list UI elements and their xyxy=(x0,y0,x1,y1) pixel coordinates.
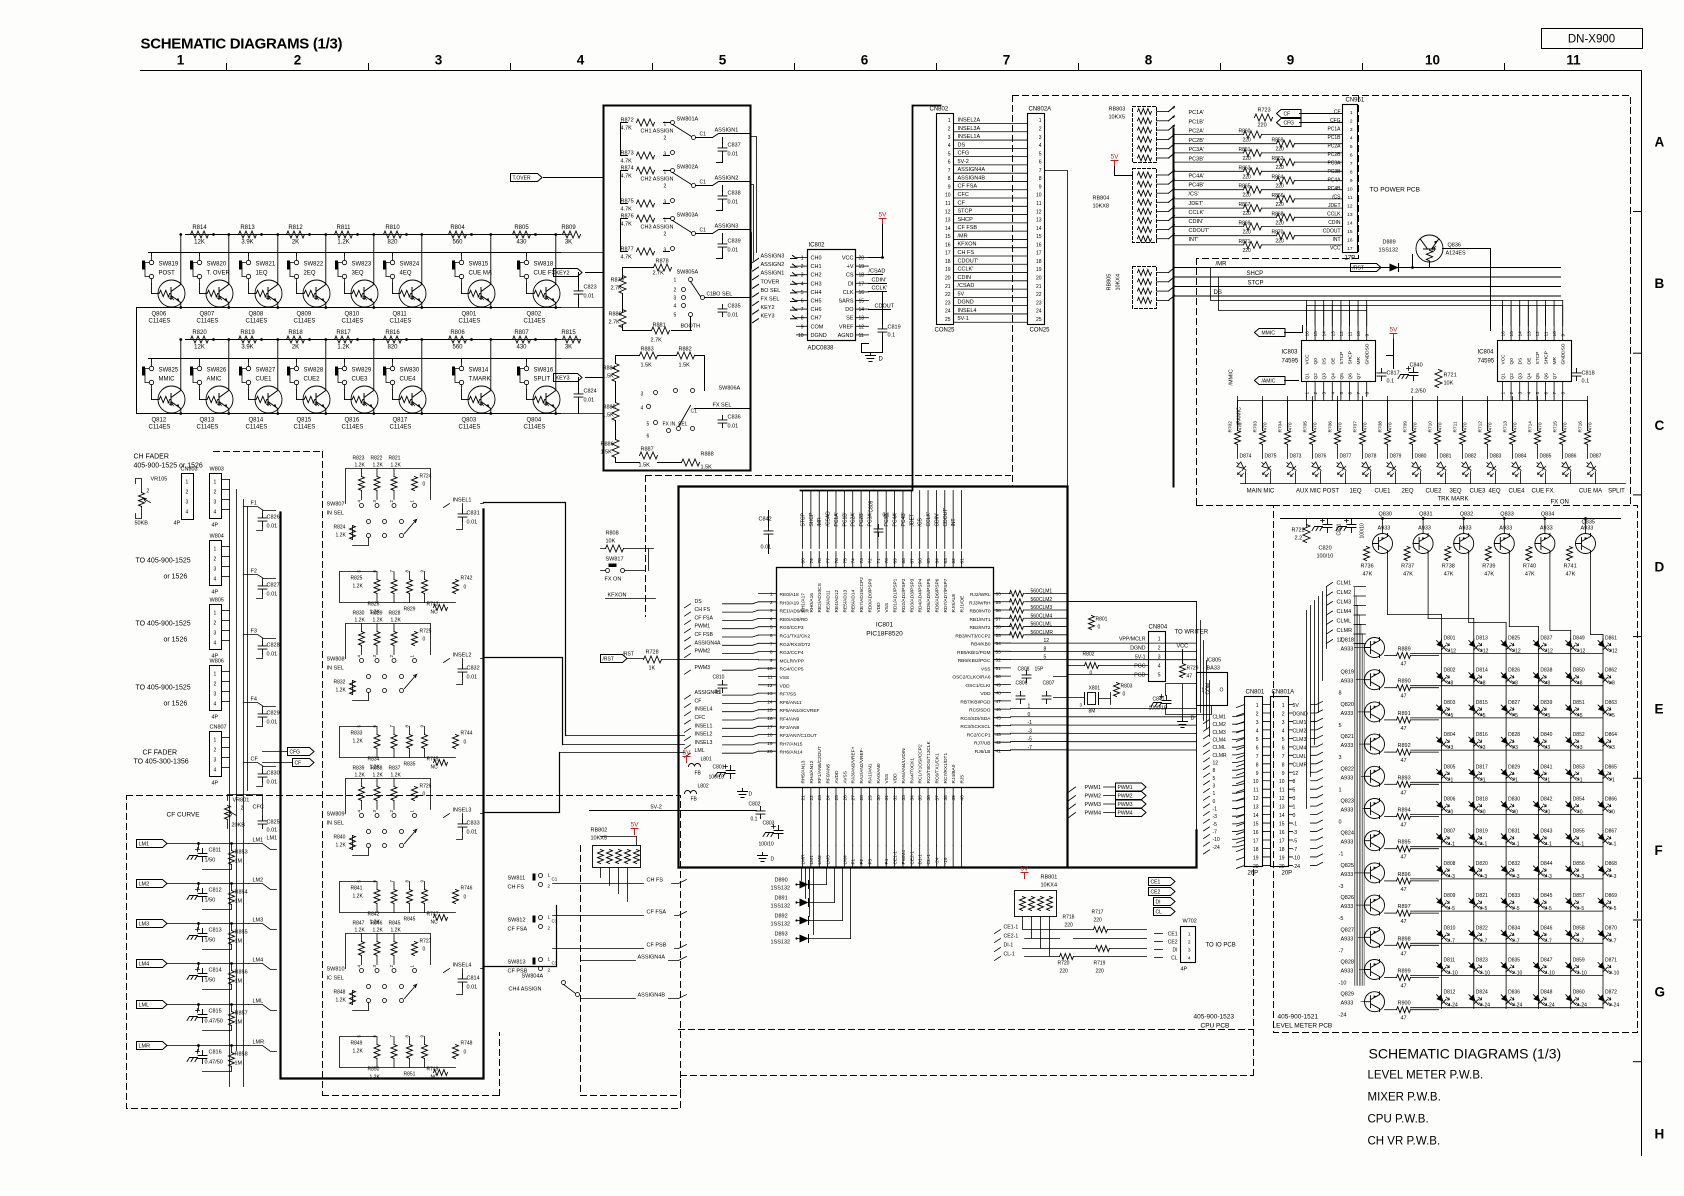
svg-text:D842: D842 xyxy=(1540,797,1552,803)
right border line xyxy=(1641,71,1643,1156)
svg-text:470: 470 xyxy=(1288,422,1294,430)
node CF flag xyxy=(1277,110,1302,118)
diode D871 xyxy=(1596,960,1615,974)
svg-text:76: 76 xyxy=(834,558,840,564)
svg-text:R835: R835 xyxy=(404,762,416,768)
svg-text:14: 14 xyxy=(945,226,951,232)
svg-text:R716: R716 xyxy=(1578,421,1584,433)
svg-text:D802: D802 xyxy=(1444,668,1456,674)
capacitor C836 xyxy=(718,416,727,428)
svg-text:C839: C839 xyxy=(728,239,741,245)
wire Q820 row xyxy=(1385,719,1397,721)
svg-text:LM1: LM1 xyxy=(809,855,815,865)
svg-text:SW812: SW812 xyxy=(508,918,526,924)
svg-text:A933: A933 xyxy=(1341,775,1354,781)
svg-text:1K: 1K xyxy=(649,666,656,672)
wire CLM rails tap to transistors xyxy=(1355,647,1365,649)
svg-text:Q7: Q7 xyxy=(1356,373,1362,380)
svg-text:R742: R742 xyxy=(461,576,473,582)
svg-text:42: 42 xyxy=(996,740,1002,746)
svg-text:2K: 2K xyxy=(292,240,299,246)
svg-text:A933: A933 xyxy=(1341,872,1354,878)
svg-text:F4: F4 xyxy=(884,859,890,865)
svg-text:D857: D857 xyxy=(1573,893,1585,899)
diode D883 xyxy=(1485,460,1498,476)
svg-text:D841: D841 xyxy=(1540,764,1552,770)
diode D805 xyxy=(1434,767,1453,781)
resistor R862 220 xyxy=(1277,159,1295,166)
resistor R809 xyxy=(563,231,581,238)
diode D842 xyxy=(1531,799,1550,813)
svg-text:RB1/INT1: RB1/INT1 xyxy=(969,617,990,623)
svg-text:20: 20 xyxy=(945,276,951,282)
svg-text:R889: R889 xyxy=(1398,647,1411,653)
svg-text:-5: -5 xyxy=(1213,822,1218,828)
svg-text:or 1526: or 1526 xyxy=(164,637,188,644)
svg-text:RH3/A19: RH3/A19 xyxy=(780,600,800,606)
svg-text:VREF: VREF xyxy=(839,324,854,330)
svg-text:PWM1: PWM1 xyxy=(1118,785,1133,791)
svg-text:R812: R812 xyxy=(288,225,303,231)
svg-text:12K: 12K xyxy=(194,240,205,246)
svg-text:13: 13 xyxy=(1330,331,1336,337)
svg-text:-1: -1 xyxy=(1293,822,1298,828)
svg-text:RB803: RB803 xyxy=(1109,107,1126,113)
svg-text:2: 2 xyxy=(1509,392,1515,395)
svg-text:4.7K: 4.7K xyxy=(621,222,633,228)
svg-text:KEY2: KEY2 xyxy=(556,271,570,277)
svg-text:59: 59 xyxy=(996,600,1002,606)
svg-text:560: 560 xyxy=(452,240,463,246)
wire shift register to LED driver verticals xyxy=(1237,397,1239,431)
pin 69 IC801 xyxy=(894,552,896,568)
svg-text:3: 3 xyxy=(948,135,951,141)
wire Q811 emitter xyxy=(421,303,423,307)
svg-text:8M: 8M xyxy=(1089,709,1096,715)
transistor Q829 A933 xyxy=(1365,992,1385,1012)
transistor Q810 C114ES xyxy=(351,280,378,307)
svg-text:D843: D843 xyxy=(1540,829,1552,835)
svg-text:5: 5 xyxy=(674,313,677,319)
wire Q814 collector xyxy=(277,340,279,390)
svg-text:10: 10 xyxy=(1036,193,1042,199)
svg-text:6: 6 xyxy=(647,434,650,440)
svg-text:R817: R817 xyxy=(336,330,351,336)
svg-text:PC2A': PC2A' xyxy=(1189,129,1204,135)
svg-text:470: 470 xyxy=(1438,422,1444,430)
svg-text:100/10: 100/10 xyxy=(1317,554,1334,560)
svg-text:8: 8 xyxy=(948,176,951,182)
wires SW806A block xyxy=(616,356,705,463)
svg-text:R886: R886 xyxy=(601,442,614,448)
svg-text:0: 0 xyxy=(464,895,467,901)
pin 5 IC803 xyxy=(1340,382,1342,397)
svg-text:36: 36 xyxy=(926,795,932,801)
svg-text:21: 21 xyxy=(801,795,807,801)
svg-text:RD0/AD0/PSP0: RD0/AD0/PSP0 xyxy=(867,578,873,612)
svg-text:PWM4: PWM4 xyxy=(1118,811,1133,817)
pin 18 IC801 xyxy=(759,734,777,736)
svg-text:1SS132: 1SS132 xyxy=(771,940,791,946)
svg-text:C114ES: C114ES xyxy=(246,319,268,325)
power 5V ADC xyxy=(879,212,888,225)
svg-text:6: 6 xyxy=(1348,392,1354,395)
svg-text:R721: R721 xyxy=(1444,373,1457,379)
svg-text:1.2K: 1.2K xyxy=(391,463,402,469)
svg-text:MAIN MIC: MAIN MIC xyxy=(1247,489,1275,495)
svg-text:SW822: SW822 xyxy=(304,262,324,268)
capacitor C839 xyxy=(718,240,727,252)
svg-text:13: 13 xyxy=(945,218,951,224)
svg-text:4.7K: 4.7K xyxy=(621,255,633,261)
svg-text:RD7/AD7/PSP7: RD7/AD7/PSP7 xyxy=(943,578,949,612)
svg-text:C835: C835 xyxy=(728,304,741,310)
svg-text:MR: MR xyxy=(1552,357,1558,365)
pin 3 IC801 xyxy=(759,609,777,611)
svg-text:INSEL2: INSEL2 xyxy=(695,732,713,738)
svg-text:Q810: Q810 xyxy=(345,312,360,318)
resistor R855 1M xyxy=(229,931,235,945)
svg-text:C816: C816 xyxy=(209,1050,222,1056)
resistor R899 47 xyxy=(1397,975,1411,981)
svg-text:CLM4: CLM4 xyxy=(1337,609,1352,615)
svg-text:220: 220 xyxy=(1065,923,1074,929)
svg-text:5: 5 xyxy=(1293,788,1296,794)
svg-text:C1: C1 xyxy=(700,228,707,234)
svg-text:CH3 ASSIGN: CH3 ASSIGN xyxy=(641,225,674,231)
capacitor C823 xyxy=(574,287,583,299)
pin 35 IC801 xyxy=(919,788,921,804)
svg-text:PC4B: PC4B xyxy=(1327,186,1341,192)
svg-text:R713: R713 xyxy=(1503,421,1509,433)
svg-text:R832: R832 xyxy=(334,680,346,686)
pin 24 IC801 xyxy=(827,788,829,804)
svg-text:D871: D871 xyxy=(1605,958,1617,964)
svg-text:0.01: 0.01 xyxy=(761,545,772,551)
svg-text:R884: R884 xyxy=(603,366,616,372)
svg-text:20: 20 xyxy=(1036,276,1042,282)
pin 21 IC801 xyxy=(802,788,804,804)
svg-text:CH2: CH2 xyxy=(811,273,822,279)
svg-text:GNDDSO: GNDDSO xyxy=(1561,343,1567,364)
transistor Q814 C114ES xyxy=(255,386,282,413)
svg-text:5: 5 xyxy=(1213,776,1216,782)
svg-text:2: 2 xyxy=(241,806,244,812)
svg-text:CUE2: CUE2 xyxy=(304,377,321,383)
svg-text:9: 9 xyxy=(1039,184,1042,190)
DN-X900 title box xyxy=(1542,29,1643,49)
diode D823 xyxy=(1467,960,1486,974)
svg-text:D822: D822 xyxy=(1476,925,1488,931)
wire Q806 collector xyxy=(180,235,182,284)
svg-text:R845: R845 xyxy=(389,921,401,927)
svg-text:D821: D821 xyxy=(1476,893,1488,899)
svg-text:R813: R813 xyxy=(240,225,255,231)
svg-text:1.2K: 1.2K xyxy=(336,688,347,694)
svg-text:DS: DS xyxy=(958,142,966,148)
svg-text:TO POWER PCB: TO POWER PCB xyxy=(1370,187,1420,194)
wire IC803 output bus xyxy=(1307,397,1359,401)
resistor R715 470 xyxy=(1560,431,1566,445)
pin 22 IC801 xyxy=(810,788,812,804)
svg-text:6: 6 xyxy=(1256,745,1259,751)
svg-text:1.2K: 1.2K xyxy=(353,894,364,900)
svg-text:R822: R822 xyxy=(371,456,383,462)
wire Q808 emitter xyxy=(277,303,279,307)
svg-text:SE: SE xyxy=(846,316,854,322)
svg-text:CUE4: CUE4 xyxy=(1508,489,1525,495)
svg-text:JDET: JDET xyxy=(909,514,915,527)
svg-text:CUE MA: CUE MA xyxy=(469,271,492,277)
svg-text:R706: R706 xyxy=(1328,421,1334,433)
svg-text:4: 4 xyxy=(1282,728,1285,734)
svg-text:D877: D877 xyxy=(1340,454,1352,460)
svg-text:Q808: Q808 xyxy=(249,312,264,318)
svg-text:A933: A933 xyxy=(1341,711,1354,717)
svg-text:ASSIGN4A: ASSIGN4A xyxy=(638,955,666,961)
svg-text:C114ES: C114ES xyxy=(294,425,316,431)
svg-text:RB2/INT2: RB2/INT2 xyxy=(969,625,990,631)
pin 13 IC803 xyxy=(1331,301,1333,341)
svg-text:CLMR: CLMR xyxy=(1293,762,1308,768)
pin 52 IC801 xyxy=(994,659,1011,661)
svg-text:2: 2 xyxy=(147,489,150,495)
svg-text:-24: -24 xyxy=(1293,864,1301,870)
svg-text:LM2: LM2 xyxy=(817,855,823,865)
svg-text:47: 47 xyxy=(1401,951,1407,957)
svg-text:11: 11 xyxy=(859,333,864,339)
svg-text:CLM4: CLM4 xyxy=(1213,738,1227,744)
svg-text:38: 38 xyxy=(943,795,949,801)
svg-text:470: 470 xyxy=(1238,422,1244,430)
pin 79 IC801 xyxy=(810,552,812,568)
resistor R819 xyxy=(239,336,257,343)
svg-text:SHCP: SHCP xyxy=(1544,351,1550,364)
wire left edge connecting rows xyxy=(136,308,138,414)
node CF flag xyxy=(293,759,315,767)
switch SW820 xyxy=(190,256,202,284)
svg-text:1: 1 xyxy=(186,480,189,486)
svg-text:100/10: 100/10 xyxy=(709,775,725,781)
resistor R880 xyxy=(619,310,626,328)
svg-text:D829: D829 xyxy=(1508,764,1520,770)
svg-text:KFXON: KFXON xyxy=(958,242,977,248)
diode D801 xyxy=(1434,638,1453,652)
svg-text:CON25: CON25 xyxy=(935,328,956,334)
svg-text:2: 2 xyxy=(770,600,773,606)
svg-text:1.2K: 1.2K xyxy=(391,928,402,934)
svg-text:47K: 47K xyxy=(1444,572,1454,578)
svg-text:1: 1 xyxy=(1188,932,1191,938)
svg-text:T.OVER: T.OVER xyxy=(513,176,531,182)
resistor zero R726 xyxy=(412,787,418,801)
svg-text:RF6/AN11: RF6/AN11 xyxy=(780,700,802,706)
svg-text:CH7: CH7 xyxy=(811,316,822,322)
resistor R805 xyxy=(513,231,531,238)
level meter dashed outline xyxy=(1274,506,1638,1033)
svg-text:LM3: LM3 xyxy=(826,855,832,865)
svg-text:11: 11 xyxy=(1036,201,1041,207)
diode D869 xyxy=(1596,896,1615,910)
wire CLM bundle vertical xyxy=(1307,587,1327,809)
wire Q829 row xyxy=(1385,1009,1397,1011)
svg-text:C814: C814 xyxy=(467,976,480,982)
pin 5 IC804 xyxy=(1536,382,1538,397)
wires SW810 block xyxy=(340,934,456,1068)
svg-text:8: 8 xyxy=(1256,762,1259,768)
svg-text:SARS: SARS xyxy=(839,299,854,305)
svg-text:80: 80 xyxy=(801,558,807,564)
svg-text:Q831: Q831 xyxy=(1419,512,1432,518)
switch SW821 xyxy=(239,256,251,284)
svg-text:5: 5 xyxy=(1612,713,1615,719)
svg-text:3: 3 xyxy=(1612,745,1615,751)
svg-text:RF2/AN7/C1OUT: RF2/AN7/C1OUT xyxy=(780,733,817,739)
svg-text:C820: C820 xyxy=(1319,546,1332,552)
svg-text:-7: -7 xyxy=(1612,938,1617,944)
svg-text:INSEL1A: INSEL1A xyxy=(958,134,981,140)
svg-text:15: 15 xyxy=(767,708,773,714)
capacitor C811 electrolytic xyxy=(187,848,207,862)
svg-text:R829: R829 xyxy=(371,611,383,617)
svg-text:C808: C808 xyxy=(1018,667,1030,673)
svg-text:405-900-1523: 405-900-1523 xyxy=(1194,1014,1235,1021)
svg-text:Q823: Q823 xyxy=(1341,799,1354,805)
svg-text:0.47/50: 0.47/50 xyxy=(205,1019,223,1025)
svg-text:R841: R841 xyxy=(351,886,363,892)
svg-text:VDD: VDD xyxy=(980,691,991,697)
svg-text:D847: D847 xyxy=(1540,958,1552,964)
svg-text:VCC: VCC xyxy=(1501,354,1507,365)
svg-text:0.01: 0.01 xyxy=(267,720,278,726)
svg-text:R846: R846 xyxy=(371,921,383,927)
pin 11 IC804 xyxy=(1545,301,1547,341)
svg-text:Q2: Q2 xyxy=(1509,373,1515,380)
svg-text:SW829: SW829 xyxy=(352,368,372,374)
svg-text:0.01: 0.01 xyxy=(728,200,739,206)
wire top bundle from CPU xyxy=(801,106,941,491)
pin 13 IC801 xyxy=(759,692,777,694)
svg-text:F4: F4 xyxy=(251,697,257,703)
svg-text:Q806: Q806 xyxy=(152,312,167,318)
svg-text:ASSIGN4B: ASSIGN4B xyxy=(958,175,986,181)
svg-text:8: 8 xyxy=(1039,176,1042,182)
diode D845 xyxy=(1531,896,1550,910)
svg-text:2: 2 xyxy=(948,126,951,132)
ground ADC xyxy=(866,353,876,362)
svg-text:0: 0 xyxy=(423,482,426,488)
svg-text:D838: D838 xyxy=(1540,668,1552,674)
svg-text:0.01: 0.01 xyxy=(267,524,278,530)
svg-text:PC3A': PC3A' xyxy=(1189,147,1204,153)
svg-text:R870: R870 xyxy=(1272,230,1284,236)
svg-text:CL-1: CL-1 xyxy=(1004,952,1015,958)
diode D854 xyxy=(1563,799,1582,813)
wire SW827 to bus xyxy=(248,359,250,362)
svg-text:-10: -10 xyxy=(1293,855,1301,861)
switch SW801A xyxy=(671,121,675,125)
svg-text:B: B xyxy=(1655,276,1665,291)
wire Q823 row xyxy=(1385,816,1397,818)
svg-text:D830: D830 xyxy=(1508,797,1520,803)
wire Q801 emitter xyxy=(490,303,492,307)
svg-text:1.2K: 1.2K xyxy=(391,773,402,779)
svg-text:Q829: Q829 xyxy=(1341,992,1354,998)
svg-text:1: 1 xyxy=(1501,392,1507,395)
wire Q803 emitter xyxy=(490,409,492,413)
svg-text:D812: D812 xyxy=(1444,990,1456,996)
svg-text:RF7/SS: RF7/SS xyxy=(780,692,797,698)
diode D864 xyxy=(1596,735,1615,749)
svg-text:D891: D891 xyxy=(775,896,788,902)
diode D843 xyxy=(1531,831,1550,845)
svg-text:1EQ: 1EQ xyxy=(256,271,268,277)
svg-text:1.2K: 1.2K xyxy=(337,240,349,246)
wire Q816 emitter xyxy=(373,409,375,413)
svg-text:19: 19 xyxy=(1253,855,1259,861)
svg-text:0.01: 0.01 xyxy=(728,313,739,319)
svg-text:MMIC: MMIC xyxy=(159,377,176,383)
wires SW809 block xyxy=(340,779,456,913)
svg-text:CL-1: CL-1 xyxy=(926,854,932,865)
svg-text:CDIN': CDIN' xyxy=(934,513,940,526)
svg-text:R818: R818 xyxy=(288,330,303,336)
svg-text:TRK MARK: TRK MARK xyxy=(1438,497,1469,503)
svg-text:15: 15 xyxy=(859,299,865,305)
diode D885 xyxy=(1535,460,1548,476)
svg-text:19: 19 xyxy=(1279,855,1285,861)
svg-text:11: 11 xyxy=(1348,331,1354,336)
svg-text:35: 35 xyxy=(918,795,924,801)
diode D840 xyxy=(1531,735,1550,749)
wire SW821 to bus xyxy=(248,253,250,256)
svg-text:R871: R871 xyxy=(1239,239,1251,245)
svg-text:1SS132: 1SS132 xyxy=(771,904,791,910)
svg-text:R819: R819 xyxy=(240,330,255,336)
resistor R868 220 xyxy=(1277,214,1295,221)
svg-text:INSEL4: INSEL4 xyxy=(453,963,472,969)
diode D807 xyxy=(1434,831,1453,845)
svg-text:C809: C809 xyxy=(869,500,875,512)
svg-text:RA4/T0CK1: RA4/T0CK1 xyxy=(909,758,915,784)
svg-text:R711: R711 xyxy=(1453,421,1459,432)
svg-text:Q812: Q812 xyxy=(152,418,167,424)
node LM4 flag xyxy=(137,960,168,968)
svg-text:CN802A: CN802A xyxy=(1029,107,1052,113)
svg-text:31: 31 xyxy=(884,795,890,801)
svg-text:4: 4 xyxy=(186,510,189,516)
svg-text:6: 6 xyxy=(801,299,804,305)
svg-text:75: 75 xyxy=(842,558,848,564)
pin 30 IC801 xyxy=(877,788,879,804)
svg-text:47K: 47K xyxy=(1484,572,1494,578)
capacitor C841 electrolytic xyxy=(1151,695,1171,709)
svg-text:MCLR/VPP: MCLR/VPP xyxy=(780,658,805,664)
svg-text:R725: R725 xyxy=(420,629,432,635)
connector CN961 xyxy=(1343,105,1358,253)
svg-text:A933: A933 xyxy=(1581,526,1594,532)
svg-text:1M: 1M xyxy=(235,859,243,865)
pin 8 IC803 xyxy=(1366,382,1368,397)
svg-text:16: 16 xyxy=(767,716,773,722)
svg-text:SW819: SW819 xyxy=(159,262,179,268)
svg-text:LML: LML xyxy=(695,748,705,754)
pin 46 IC801 xyxy=(994,708,1011,710)
svg-text:470: 470 xyxy=(1388,422,1394,430)
svg-text:1: 1 xyxy=(1213,791,1216,797)
pin 10 IC801 xyxy=(759,667,777,669)
resistor zero R746 xyxy=(453,890,459,904)
